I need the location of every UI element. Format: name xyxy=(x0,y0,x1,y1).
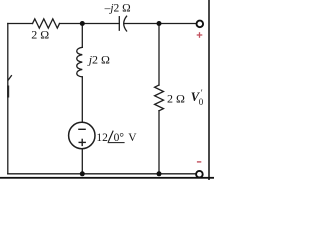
wire source to bottom node xyxy=(81,149,83,174)
svg-text:2 Ω: 2 Ω xyxy=(31,28,49,42)
red plus terminal polarity xyxy=(197,32,203,38)
current arrow tick on left wire xyxy=(8,76,11,81)
voltage source plus sign xyxy=(79,139,86,146)
wire capacitor to right node xyxy=(125,23,197,25)
wire bottom xyxy=(8,173,196,175)
voltage source V1 circle xyxy=(69,122,95,148)
page frame bottom border xyxy=(0,177,214,179)
red minus terminal polarity xyxy=(197,161,201,163)
wire middle branch upper (node to inductor) xyxy=(81,24,83,48)
wire left vertical branch xyxy=(7,24,9,174)
svg-text:0°: 0° xyxy=(114,132,125,144)
wire top-left segment xyxy=(8,23,33,25)
svg-text:2 Ω: 2 Ω xyxy=(167,92,185,106)
svg-text:V: V xyxy=(128,132,137,144)
terminal b (bottom open circle) xyxy=(196,171,203,178)
terminal a (top open circle) xyxy=(197,21,204,28)
current arrow shaft artifact on left wire xyxy=(7,86,9,98)
wire right branch upper (node to resistor) xyxy=(158,24,160,86)
voltage source minus sign xyxy=(78,128,86,130)
page frame right border xyxy=(208,0,210,180)
svg-text:–j2 Ω: –j2 Ω xyxy=(104,2,131,14)
svg-text:j2 Ω: j2 Ω xyxy=(87,52,110,66)
node C junction dot bottom middle xyxy=(80,171,85,176)
inductor L1 j2ohm coil xyxy=(77,47,83,77)
capacitor C1 right curved plate xyxy=(124,16,127,31)
wire inductor to source xyxy=(81,77,83,123)
angle underline xyxy=(108,142,125,144)
wire top middle (resistor to capacitor) xyxy=(60,23,120,25)
node A junction dot top middle xyxy=(80,21,85,26)
resistor R2 2ohm (vertical zigzag) xyxy=(155,85,164,111)
svg-text:′: ′ xyxy=(201,88,203,98)
capacitor C1 left plate xyxy=(118,17,120,31)
svg-text:0: 0 xyxy=(199,97,204,107)
svg-text:12: 12 xyxy=(96,132,108,144)
wire resistor to bottom node xyxy=(158,111,160,174)
resistor R1 2ohm (horizontal zigzag) xyxy=(33,19,60,28)
node D junction dot bottom right xyxy=(157,171,162,176)
angle slash xyxy=(108,131,113,142)
node B junction dot top right xyxy=(157,21,162,26)
